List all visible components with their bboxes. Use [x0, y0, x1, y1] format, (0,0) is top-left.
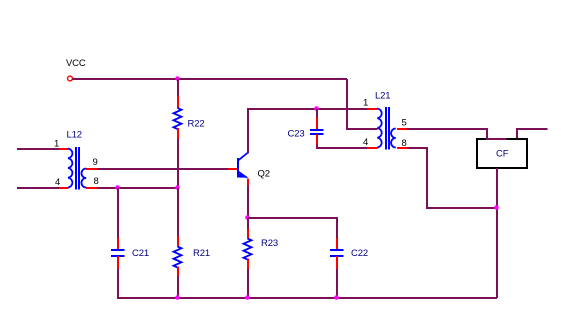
L12 secondary winding [81, 169, 86, 188]
svg-text:5: 5 [402, 118, 407, 129]
svg-text:VCC: VCC [66, 58, 86, 69]
svg-text:9: 9 [93, 157, 98, 168]
L21 secondary winding [391, 129, 396, 148]
svg-text:8: 8 [402, 138, 407, 149]
Q2 emitter line [239, 172, 248, 178]
Q2 base pin [228, 168, 238, 170]
wire across CF top edge [486, 138, 507, 140]
junction R21 bottom [175, 295, 180, 300]
resistor R23 [244, 229, 252, 269]
wire Q2 emitter node [247, 186, 249, 219]
L21 pin 4 [367, 147, 378, 149]
wire C22 bottom [336, 269, 338, 298]
wire R22 top [177, 79, 179, 97]
svg-text:L21: L21 [375, 91, 390, 102]
resistor R22 [174, 96, 182, 139]
wire CF bottom [496, 168, 498, 298]
L21 pin 8 [397, 147, 407, 149]
wire C23 top [316, 109, 318, 117]
Q2 collector line [239, 153, 248, 160]
junction R21 top [175, 185, 180, 190]
power terminal VCC [68, 76, 73, 81]
wire L21 pin 8 to CF bottom node [407, 148, 497, 208]
junction C23 top [314, 106, 319, 111]
Q2 emitter arrow [239, 173, 245, 177]
filter CF [477, 139, 527, 168]
wire VCC rail [73, 78, 348, 80]
svg-text:8: 8 [94, 176, 99, 187]
wire input to pin 4 [17, 187, 59, 189]
L12 pin 9 [86, 168, 98, 170]
L21 primary winding [377, 109, 381, 148]
svg-text:R21: R21 [193, 248, 210, 259]
svg-text:R23: R23 [261, 238, 278, 249]
wire input to pin 1 [17, 148, 59, 150]
capacitor C23 [310, 117, 324, 145]
L12 pin 4 [59, 187, 69, 189]
svg-text:4: 4 [363, 137, 368, 148]
L21 pin 5 [397, 128, 407, 130]
svg-text:1: 1 [54, 139, 59, 150]
wire R21 [177, 188, 179, 236]
Q2 base bar [237, 158, 239, 178]
L12 pin 1 [59, 148, 69, 150]
wire Q2 collector up [248, 109, 367, 154]
wire R21 bottom [177, 276, 179, 298]
wire C21 top [117, 188, 119, 238]
transformer L12 [59, 147, 98, 190]
svg-text:C21: C21 [132, 248, 149, 259]
junction CF bottom [494, 205, 499, 210]
wire VCC rail to L21 center tap [347, 79, 378, 129]
L21 core [385, 107, 387, 150]
svg-text:4: 4 [55, 177, 60, 188]
svg-text:1: 1 [363, 98, 368, 109]
svg-text:Q2: Q2 [258, 169, 270, 180]
wire C21 bottom to ground rail [118, 269, 497, 298]
wire R23 top [247, 218, 249, 229]
L12 primary winding [68, 149, 72, 188]
wire emitter to C22 [248, 218, 337, 238]
junction C22 bottom [334, 295, 339, 300]
wire R23 bottom [247, 269, 249, 298]
svg-text:CF: CF [496, 149, 509, 160]
junction R22 top [175, 76, 180, 81]
wire C23 bottom to L21 pin 4 [317, 145, 367, 148]
wire L21 pin 5 to CF [407, 129, 487, 139]
L12 pin 8 [86, 187, 98, 189]
junction C21 top [115, 185, 120, 190]
L21 pin 1 [367, 108, 378, 110]
capacitor C22 [330, 238, 344, 269]
transistor Q2 [228, 147, 248, 186]
wire pin 8 to bias node [98, 187, 179, 189]
transformer L21 [367, 107, 407, 150]
svg-text:C23: C23 [288, 129, 305, 140]
junction R23 top [245, 215, 250, 220]
capacitor C21 [111, 238, 125, 269]
Q2 emitter pin [247, 179, 249, 186]
svg-text:L12: L12 [67, 130, 82, 141]
L12 core [75, 147, 77, 190]
wire CF output [517, 129, 548, 138]
junction R23 bottom [245, 295, 250, 300]
svg-text:C22: C22 [351, 248, 368, 259]
wire pin 9 to Q2 base [98, 168, 229, 170]
resistor R21 [174, 236, 182, 276]
svg-text:R22: R22 [188, 119, 205, 130]
wire R22 bottom to node [177, 139, 179, 188]
Q2 collector pin [247, 147, 249, 154]
